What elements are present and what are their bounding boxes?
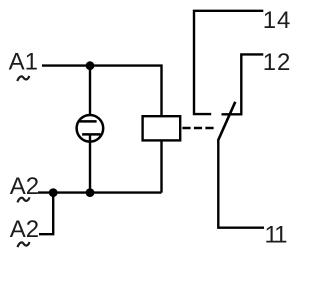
- wire terminal 14 with NO fixed contact: [194, 11, 263, 114]
- AC tilde under A1: [17, 76, 29, 81]
- svg-text:A2: A2: [10, 173, 39, 200]
- wire coil bottom: [160, 140, 162, 193]
- svg-text:14: 14: [263, 7, 292, 34]
- junction node A1/lamp branch: [86, 61, 95, 70]
- relay coil: [143, 116, 181, 140]
- wire A1 to coil top: [42, 66, 162, 117]
- wire terminal 11: [218, 140, 264, 228]
- AC tilde under A2 lower: [18, 242, 30, 247]
- mechanical link dashed: [182, 127, 213, 130]
- NC fixed contact bar: [222, 113, 243, 115]
- wire lamp branch lower: [89, 134, 91, 192]
- changeover contact arm: [218, 102, 235, 141]
- svg-text:11: 11: [265, 221, 288, 248]
- wire terminal 12: [241, 54, 263, 114]
- svg-text:A2: A2: [10, 216, 39, 243]
- svg-text:12: 12: [263, 49, 292, 76]
- svg-text:A1: A1: [9, 49, 38, 76]
- wire lamp branch upper: [89, 66, 91, 122]
- glow lamp indicator: [77, 115, 104, 142]
- wire A2 bus: [38, 191, 162, 193]
- wire A2 lower bridge: [39, 193, 53, 235]
- junction node A2 bridge: [49, 188, 58, 197]
- junction node A2/lamp: [86, 188, 95, 197]
- AC tilde under A2 upper: [18, 197, 30, 202]
